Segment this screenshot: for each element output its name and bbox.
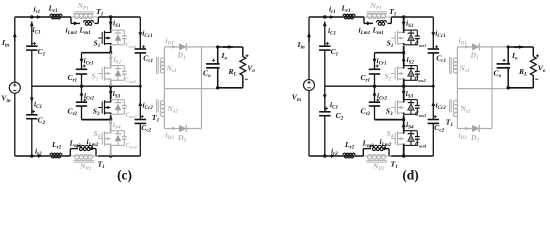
- svg-text:Coss1: Coss1: [415, 42, 426, 49]
- svg-text:(c): (c): [117, 168, 132, 183]
- svg-text:(d): (d): [402, 168, 418, 183]
- svg-text:Coss3: Coss3: [126, 113, 137, 120]
- svg-text:Coss1: Coss1: [126, 43, 137, 50]
- svg-text:Coss4: Coss4: [415, 142, 426, 149]
- svg-text:Coss2: Coss2: [415, 77, 426, 84]
- svg-text:Coss2: Coss2: [125, 78, 136, 85]
- svg-text:Coss4: Coss4: [126, 143, 137, 150]
- svg-text:Coss3: Coss3: [415, 112, 426, 119]
